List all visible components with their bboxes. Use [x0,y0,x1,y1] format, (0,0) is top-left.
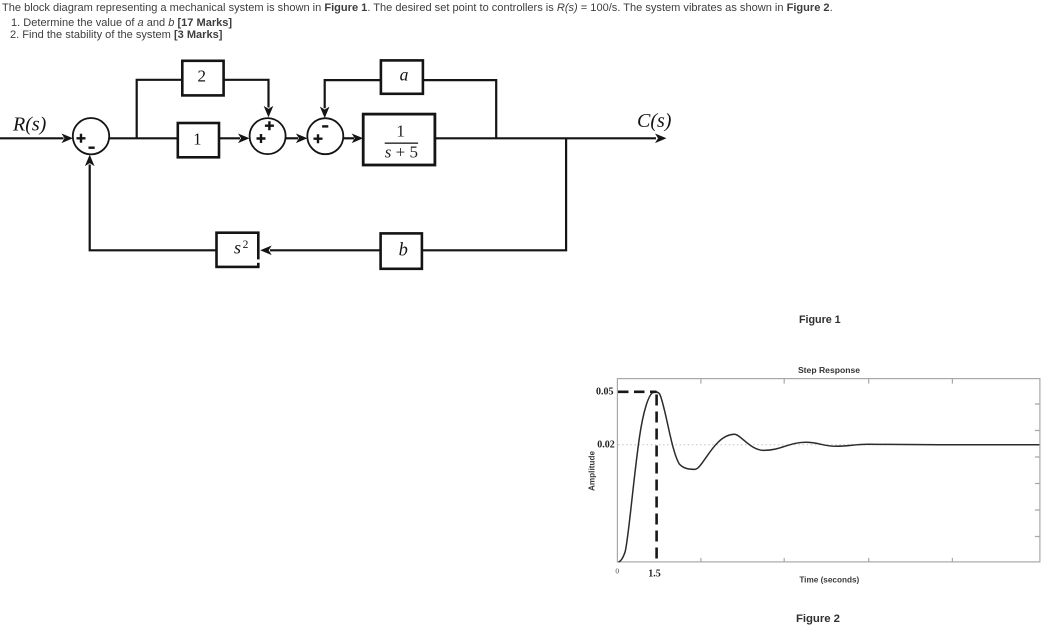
wire: takeoff to block a feedback [423,80,496,138]
summing junction S2 [250,118,286,154]
question 2 [10,29,222,41]
svg-text:Step Response: Step Response [798,365,860,375]
wire: block G output to C(s) [435,134,667,144]
svg-text:C(s): C(s) [637,110,672,132]
y tick label 0.02 [597,439,615,450]
dashed peak marker horizontal [618,390,657,393]
svg-text:1: 1 [396,122,405,141]
plot top ticks [701,379,953,384]
dotted steady-state 0.02 line [618,444,1039,446]
y axis label Amplitude [587,451,596,491]
svg-text:Amplitude: Amplitude [587,451,596,491]
wire: branch up to block K2 [137,80,183,139]
node C(s) output label [637,110,672,132]
svg-text:1.5: 1.5 [648,569,661,580]
block a [381,60,423,93]
svg-text:s: s [234,237,241,257]
block s2 [217,233,260,267]
svg-text:0.02: 0.02 [597,439,615,450]
svg-text:Time (seconds): Time (seconds) [799,576,859,585]
block K1 (gain 1) [178,123,219,157]
wire: block b to block s2 [260,246,380,256]
block b [381,233,422,268]
plot bottom ticks [701,558,953,562]
wire: block K1 to summing junction S2 [219,134,250,144]
block K2 (gain 2) [182,61,223,96]
svg-text:2: 2 [198,67,207,86]
svg-text:0: 0 [615,567,619,576]
svg-text:1: 1 [193,130,201,149]
dashed peak marker vertical [655,395,658,562]
wire: block K2 to summing junction S2 [224,80,274,118]
problem statement line 1 [2,2,833,14]
wire: takeoff to block b feedback [422,138,566,250]
wire: S2 to summing junction S3 [286,134,308,144]
plot title Step Response [798,365,860,375]
svg-text:b: b [399,240,408,260]
x origin label 0 [615,567,619,576]
svg-text:a: a [400,65,409,85]
block G 1/(s+5) [363,114,435,165]
node R(s) input label [12,114,47,136]
wire: S1 to block K1 with branch node [109,137,178,139]
plot frame [617,379,1040,562]
svg-text:0.05: 0.05 [596,386,614,397]
svg-text:2: 2 [243,239,249,251]
step response curve [619,392,1040,562]
plot right ticks [1035,404,1040,537]
Figure 2 caption [796,613,840,625]
summing junction S1 [73,118,109,154]
y tick label 0.05 [596,386,614,397]
svg-text:R(s): R(s) [12,114,47,136]
Figure 1 caption [799,314,841,326]
wire: block a to S3 [320,80,381,118]
wire: S3 to block G [343,134,363,144]
wire: block s2 to S1 [85,155,217,251]
x tick label 1.5 [648,569,661,580]
x axis label Time (seconds) [799,576,859,585]
svg-text:s + 5: s + 5 [385,143,418,162]
wire: input to summing junction S1 [0,134,73,144]
summing junction S3 [307,118,343,154]
question 1 [11,17,232,29]
